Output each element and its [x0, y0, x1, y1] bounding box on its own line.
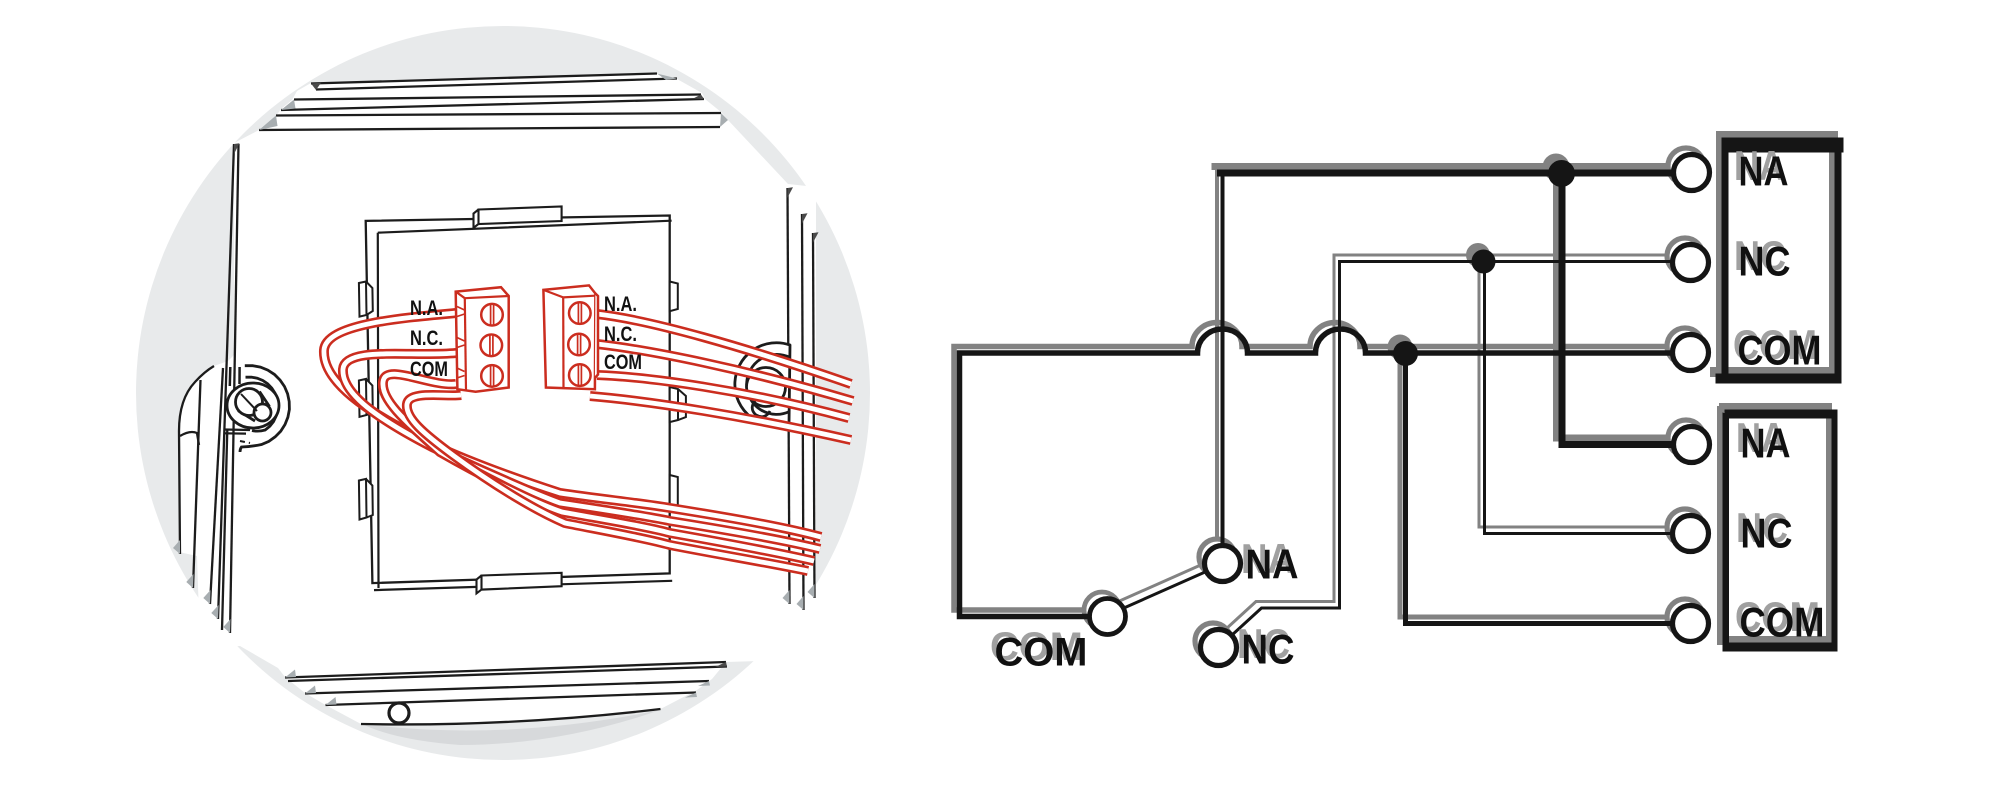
- top panel strip 2 lower edge: [281, 99, 704, 110]
- top panel line 4: [259, 127, 720, 130]
- top panel strip 1 upper edge: [311, 74, 657, 84]
- svg-text:N.A.: N.A.: [410, 297, 443, 320]
- main black pass: [960, 138, 1844, 666]
- left wall edge line inner: [230, 144, 239, 633]
- wedge bottom strip right ends: [715, 662, 727, 667]
- left wing inner notch: [180, 432, 199, 445]
- grommet outer ring: [735, 343, 790, 426]
- module left tab 2: [359, 379, 373, 417]
- wedge left wall top: [234, 143, 240, 154]
- red wire tube right 4th: [590, 396, 851, 440]
- grommet hook detail: [752, 398, 770, 417]
- left screw lug: [222, 364, 291, 630]
- module front face edges: [374, 221, 672, 590]
- module right tab 3: [670, 475, 678, 508]
- svg-text:N.A.: N.A.: [604, 293, 637, 316]
- wedge bottom strip left ends: [285, 670, 296, 678]
- left wing line b: [210, 368, 223, 604]
- white interior of wall recess: [179, 73, 816, 725]
- svg-text:COM: COM: [604, 351, 642, 374]
- module top tab: [474, 207, 562, 228]
- red wire tube left COM loop: [383, 374, 814, 561]
- bottom panel line 2: [305, 681, 709, 694]
- right wall line 3: [813, 233, 815, 598]
- top panel line 3: [276, 113, 721, 116]
- red wire tube left 4th loop: [407, 395, 808, 571]
- screw hole in bottom panel: [389, 703, 409, 723]
- module left tab 3: [359, 479, 373, 520]
- grommet cable hole: [747, 368, 786, 407]
- svg-text:N.C.: N.C.: [410, 327, 443, 350]
- bottom shadow under curved panel lip: [362, 710, 660, 745]
- red wire tube left NC loop: [343, 353, 820, 549]
- bottom panel curved lip: [361, 709, 661, 724]
- left wall edge line outer: [218, 144, 234, 619]
- terminals with slots: [481, 304, 503, 326]
- grommet inner ring: [747, 354, 790, 414]
- red wire tube right NC: [597, 344, 853, 401]
- label ghost pass: [990, 142, 1820, 669]
- terminal block right: [543, 285, 598, 389]
- wedge left wall bottoms: [211, 605, 218, 619]
- label main pass: [995, 148, 1825, 675]
- top panel strip 2 upper edge: [294, 95, 701, 100]
- module right tab 2: [670, 387, 686, 422]
- module left tab 1: [359, 282, 373, 317]
- red wire tube right NA: [597, 314, 851, 384]
- screw body cylinder: [238, 392, 270, 422]
- bottom panel strip 1 lower edge: [288, 667, 727, 682]
- wire entry stubs: [457, 307, 465, 379]
- right wall line 2: [802, 214, 804, 610]
- bottom panel strip 1 upper edge: [285, 662, 726, 678]
- red wire tube right COM: [597, 375, 849, 418]
- wedge right wall bottoms: [783, 590, 790, 604]
- svg-text:N.C.: N.C.: [604, 323, 637, 346]
- module bottom tab: [477, 573, 562, 594]
- wedge top strip1 left: [311, 83, 321, 90]
- left wing line a: [193, 380, 201, 588]
- svg-text:COM: COM: [410, 358, 448, 381]
- top panel strip 1 lower edge: [316, 79, 677, 90]
- screw head ellipse: [227, 383, 279, 428]
- backdrop gray circle: [136, 26, 870, 760]
- terminal block left: [456, 287, 509, 392]
- red wire tube left NA loop: [324, 313, 821, 537]
- right wall line 1: [788, 188, 790, 604]
- bottom panel line 3: [326, 693, 697, 706]
- left wing outline: [179, 366, 214, 554]
- module right tab 1: [670, 282, 678, 312]
- red wiring of the illustration (double-line tubes): [324, 313, 853, 571]
- module box back face: [366, 216, 670, 584]
- terminals with slots: [569, 302, 591, 324]
- wedge right wall tops: [787, 187, 793, 198]
- ghost (upscale artifact) pass: [954, 131, 1838, 659]
- right grommet: [735, 343, 790, 426]
- wedge shades at line ends: [173, 74, 819, 706]
